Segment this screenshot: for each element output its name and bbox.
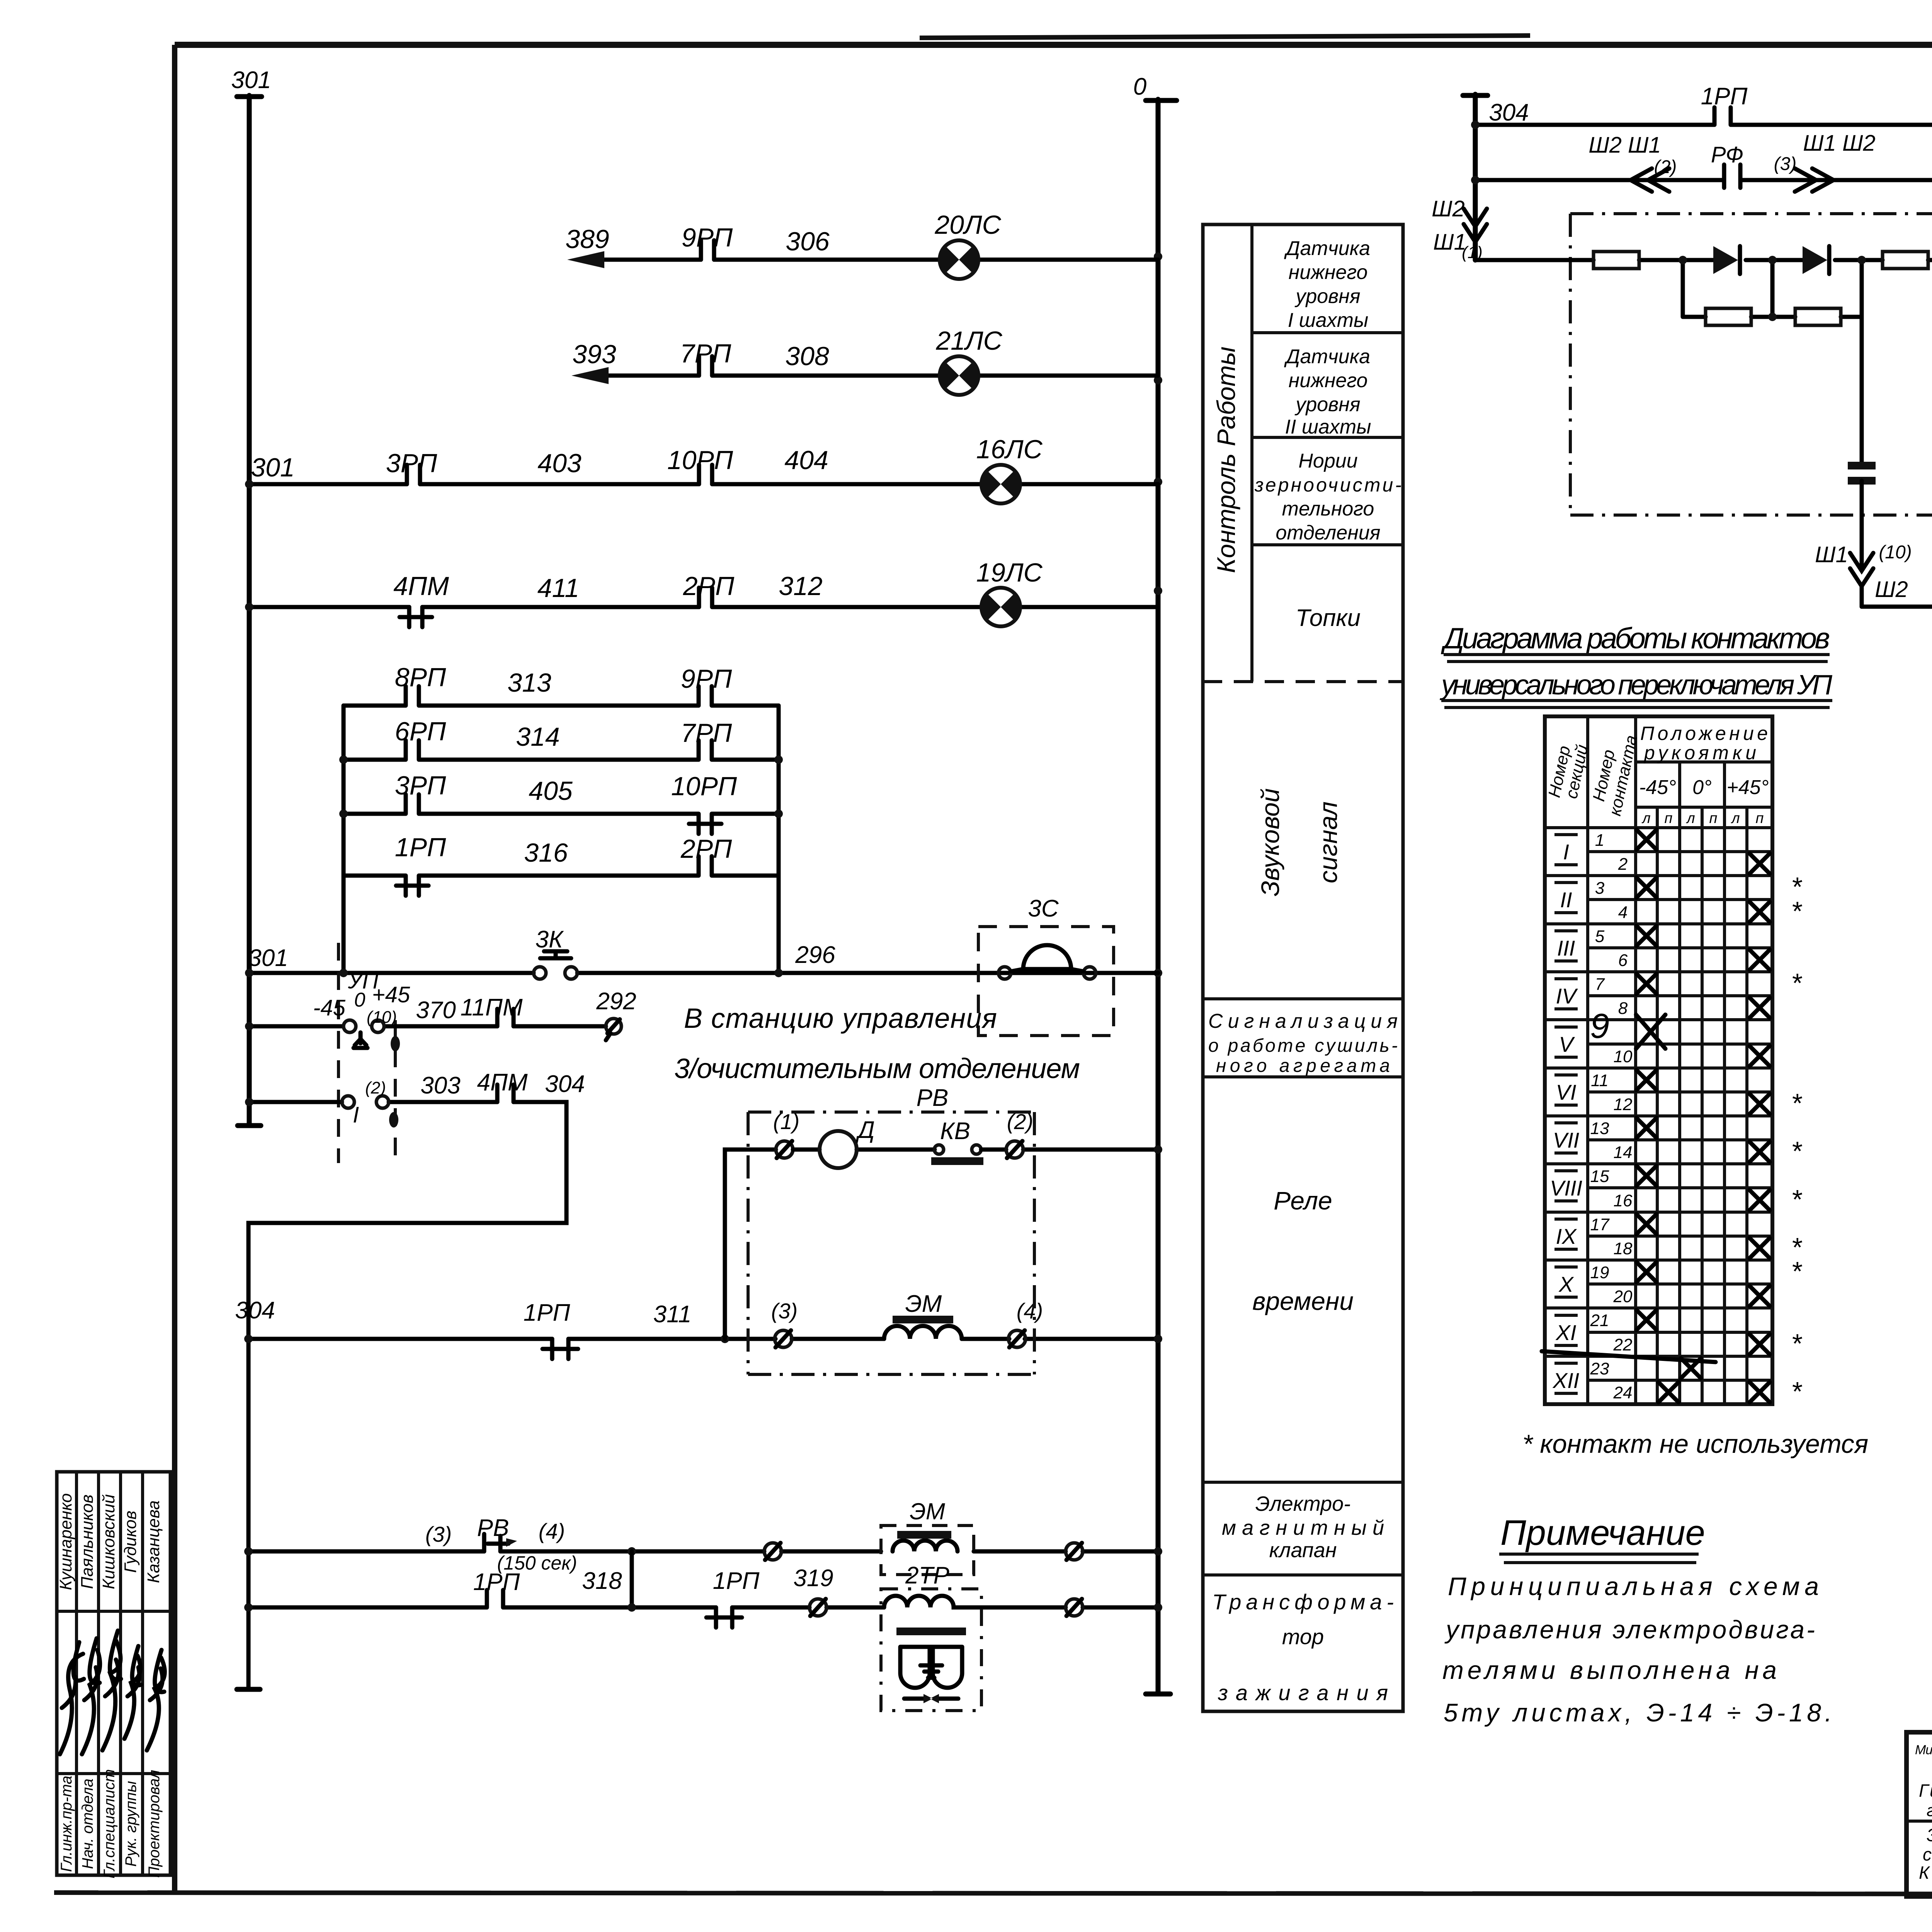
svg-text:7: 7: [1595, 975, 1605, 994]
svg-text:+45: +45: [372, 982, 410, 1007]
svg-text:15: 15: [1590, 1167, 1609, 1186]
parallel contact block: verticals: [344, 706, 779, 973]
svg-text:VII: VII: [1553, 1128, 1579, 1152]
svg-text:Рук. группы: Рук. группы: [122, 1781, 139, 1867]
svg-text:8РП: 8РП: [395, 663, 446, 692]
svg-text:1РП: 1РП: [1701, 83, 1748, 110]
svg-text:Гл.специалист: Гл.специалист: [101, 1769, 118, 1879]
svg-text:314: 314: [516, 722, 560, 752]
lamp 21ЛС: [940, 356, 978, 395]
svg-text:III: III: [1557, 936, 1575, 960]
svg-text:Топки: Топки: [1296, 605, 1361, 631]
connector Ш1Ш2 (3) right arrows: [1795, 168, 1833, 192]
svg-text:18: 18: [1614, 1239, 1633, 1258]
contact КВ: [934, 1145, 944, 1154]
diode VD2: [1803, 246, 1827, 274]
svg-text:5: 5: [1595, 927, 1605, 946]
LEFT-SCHEMATIC: [231, 67, 1177, 1711]
wire rung 301 - push button 3К - 296 to bus 0: [249, 971, 1158, 975]
svg-text:Гипросельхозптицепром: Гипросельхозптицепром: [1919, 1781, 1932, 1801]
contact 3РП / wire 405 / contact 10РП (NC): [344, 794, 779, 834]
svg-text:Министерство сельского хозяйст: Министерство сельского хозяйства СССР: [1915, 1743, 1932, 1757]
svg-text:316: 316: [524, 838, 568, 867]
svg-text:Принципиальная схема: Принципиальная схема: [1448, 1572, 1819, 1600]
contact 6РП / wire 314 / contact 7РП: [344, 740, 779, 760]
svg-text:Звуковой: Звуковой: [1256, 788, 1284, 896]
svg-text:ЭМ: ЭМ: [905, 1291, 942, 1317]
resistor R2 / resistor R6 lower branch wires: [1683, 260, 1862, 466]
wire top with contact 1РП: [1475, 107, 1932, 180]
contact 1РП (NC) / wire 316 / contact 2РП: [344, 856, 779, 896]
svg-text:Контроль Работы: Контроль Работы: [1212, 347, 1240, 573]
svg-text:1РП: 1РП: [524, 1299, 570, 1326]
svg-text:(2): (2): [1007, 1109, 1033, 1134]
resistor R6: [1795, 308, 1841, 325]
CONTACT-DIAGRAM: [1439, 622, 1868, 1459]
svg-text:370: 370: [416, 997, 456, 1024]
svg-text:(2): (2): [1654, 157, 1677, 177]
svg-text:389: 389: [565, 224, 609, 254]
svg-text:КВ: КВ: [940, 1118, 970, 1145]
svg-text:301: 301: [251, 453, 294, 482]
svg-text:312: 312: [779, 571, 822, 601]
svg-text:г. Ростов-на-Дону 1972г.: г. Ростов-на-Дону 1972г.: [1927, 1801, 1932, 1820]
svg-text:24: 24: [1613, 1383, 1633, 1402]
svg-text:1РП: 1РП: [473, 1569, 520, 1595]
svg-text:3/очистительным отделением: 3/очистительным отделением: [674, 1053, 1080, 1084]
FLAME-CIRCUIT: [1432, 82, 1932, 629]
svg-text:Ш1: Ш1: [1815, 542, 1848, 567]
svg-text:Казанцева: Казанцева: [144, 1500, 163, 1583]
svg-text:*: *: [1791, 1328, 1803, 1359]
svg-text:VIII: VIII: [1550, 1176, 1582, 1200]
svg-text:-45: -45: [313, 995, 346, 1020]
svg-text:3РП: 3РП: [386, 449, 437, 478]
svg-text:13: 13: [1590, 1119, 1609, 1138]
svg-text:IX: IX: [1556, 1224, 1578, 1248]
svg-text:19: 19: [1590, 1263, 1609, 1282]
svg-text:(3): (3): [425, 1522, 452, 1546]
node 304 feeder (left vertical): [1463, 94, 1488, 260]
svg-text:Гудиков: Гудиков: [121, 1510, 140, 1573]
svg-text:313: 313: [507, 668, 551, 697]
svg-text:318: 318: [582, 1568, 622, 1594]
svg-text:тор: тор: [1282, 1624, 1324, 1649]
svg-text:РФ: РФ: [1711, 142, 1743, 167]
svg-text:(10): (10): [367, 1008, 397, 1027]
svg-text:(10): (10): [1879, 542, 1912, 563]
svg-text:(4): (4): [539, 1519, 565, 1543]
svg-text:21: 21: [1590, 1311, 1609, 1330]
svg-text:магнитный: магнитный: [1222, 1516, 1384, 1539]
svg-text:1: 1: [1595, 831, 1604, 850]
svg-text:*: *: [1791, 1184, 1803, 1214]
svg-text:2: 2: [1618, 855, 1628, 874]
svg-text:Нач. отдела: Нач. отдела: [79, 1779, 96, 1869]
svg-text:о работе сушиль-: о работе сушиль-: [1208, 1036, 1398, 1056]
svg-text:0: 0: [1133, 73, 1146, 100]
svg-text:Электро-: Электро-: [1255, 1492, 1350, 1515]
svg-text:телями выполнена на: телями выполнена на: [1442, 1656, 1777, 1684]
svg-text:Положение: Положение: [1640, 723, 1768, 744]
svg-text:Ш2 Ш1: Ш2 Ш1: [1588, 133, 1661, 158]
svg-text:I шахты: I шахты: [1288, 309, 1369, 332]
svg-text:3: 3: [1595, 879, 1605, 898]
svg-text:10РП: 10РП: [667, 446, 733, 475]
svg-text:20ЛС: 20ЛС: [934, 210, 1001, 240]
terminal (1): [776, 1141, 793, 1158]
svg-text:зажигания: зажигания: [1218, 1680, 1388, 1705]
svg-text:п: п: [1756, 810, 1764, 827]
svg-text:л: л: [1641, 810, 1650, 827]
svg-text:РВ: РВ: [477, 1515, 509, 1541]
svg-text:Гл.инж.пр-та: Гл.инж.пр-та: [58, 1776, 75, 1872]
wire rung УП(-45/0/+45) 370 11ПМ 292: [249, 1024, 606, 1029]
svg-text:(3): (3): [771, 1299, 798, 1323]
svg-text:2РП: 2РП: [680, 834, 732, 864]
svg-text:Примечание: Примечание: [1500, 1513, 1705, 1553]
bell 3С in dashed box: [978, 927, 1114, 1036]
wire rung 1РП 318 1РП 319 2ТР: [248, 1605, 1158, 1610]
svg-text:+45°: +45°: [1726, 776, 1769, 799]
svg-text:I: I: [1563, 840, 1569, 864]
svg-text:XI: XI: [1555, 1320, 1577, 1345]
svg-text:10: 10: [1614, 1047, 1633, 1066]
svg-text:-45°: -45°: [1639, 776, 1676, 799]
svg-text:уровня: уровня: [1294, 285, 1360, 308]
connector Ш2/Ш1(1) on 304 drop: [1464, 209, 1487, 242]
svg-text:Д: Д: [855, 1117, 875, 1143]
svg-text:Нории: Нории: [1298, 450, 1357, 472]
wire 320 with connectors Ш2Ш1(2), contact РФ, (3)Ш1Ш2: [1475, 165, 1932, 188]
wire rung 393-7РП-308 to lamp 21ЛС: [604, 374, 1158, 378]
svg-text:7РП: 7РП: [680, 339, 731, 368]
diode VD1: [1713, 246, 1738, 274]
svg-text:6: 6: [1618, 951, 1628, 970]
wire rung 304 1РП 311 (3) ЭМ (4): [248, 1337, 1158, 1341]
svg-text:403: 403: [537, 449, 582, 478]
device Д (circle): [793, 1148, 935, 1152]
svg-text:21ЛС: 21ЛС: [935, 326, 1002, 355]
svg-text:12: 12: [1614, 1095, 1633, 1114]
svg-text:времени: времени: [1252, 1287, 1354, 1315]
svg-text:л: л: [1686, 810, 1695, 827]
TITLE-BLOCK: [56, 1472, 1932, 1897]
svg-text:л: л: [1731, 810, 1740, 827]
svg-text:(2): (2): [365, 1078, 386, 1097]
lamp 16ЛС: [981, 465, 1020, 503]
lamp 20ЛС: [940, 240, 978, 279]
svg-text:I: I: [353, 1102, 359, 1128]
svg-text:*: *: [1791, 1376, 1803, 1406]
svg-text:Ш2: Ш2: [1875, 577, 1908, 602]
svg-text:Реле: Реле: [1274, 1186, 1332, 1215]
svg-text:*: *: [1791, 968, 1803, 998]
coil ЭМ (2nd, dashed box): [881, 1526, 974, 1575]
svg-text:Датчика: Датчика: [1284, 345, 1370, 368]
resistor R3: [1883, 252, 1928, 269]
svg-text:14: 14: [1614, 1143, 1633, 1162]
svg-text:2ТР: 2ТР: [905, 1562, 949, 1589]
svg-text:4ПМ: 4ПМ: [393, 571, 449, 601]
svg-text:X: X: [1558, 1272, 1574, 1296]
svg-text:0: 0: [354, 989, 366, 1011]
NOTES: [1442, 1513, 1832, 1727]
bus 0 (right vertical): [1146, 99, 1177, 1694]
svg-text:*: *: [1791, 1136, 1803, 1166]
svg-text:Диаграмма работы контактов: Диаграмма работы контактов: [1440, 622, 1830, 655]
svg-text:404: 404: [784, 446, 828, 475]
svg-text:(3): (3): [1774, 154, 1797, 174]
svg-text:Зерноочистительно-: Зерноочистительно-: [1927, 1825, 1932, 1845]
terminal (2): [1006, 1141, 1023, 1158]
lamp 19ЛС: [981, 588, 1020, 626]
svg-text:нижнего: нижнего: [1289, 261, 1368, 284]
svg-text:306: 306: [786, 227, 830, 256]
svg-text:Паяльников: Паяльников: [78, 1495, 97, 1589]
svg-text:сигнал: сигнал: [1314, 801, 1342, 883]
capacitor C: [1848, 466, 1876, 481]
signatures squiggles: [60, 1642, 84, 1754]
wire rung I(2) 303 4ПМ 304: [248, 1102, 566, 1689]
wire rung 389-9РП-306 to lamp 20ЛС: [600, 258, 1158, 262]
svg-text:301: 301: [231, 67, 271, 94]
ignition transformer 2ТР: [881, 1589, 981, 1711]
svg-text:п: п: [1709, 810, 1718, 827]
svg-text:нижнего: нижнего: [1289, 369, 1368, 392]
РВ dash-dot box: [748, 1112, 1034, 1374]
svg-text:11: 11: [1591, 1071, 1609, 1090]
svg-text:393: 393: [572, 340, 616, 369]
svg-text:20: 20: [1613, 1287, 1633, 1306]
svg-text:п: п: [1665, 810, 1673, 827]
svg-text:311: 311: [653, 1301, 692, 1328]
svg-text:*: *: [1791, 1088, 1803, 1118]
svg-text:303: 303: [420, 1072, 460, 1099]
svg-text:РВ: РВ: [917, 1085, 949, 1111]
svg-text:10РП: 10РП: [671, 772, 737, 801]
svg-text:ЭМ: ЭМ: [910, 1498, 945, 1524]
svg-text:3РП: 3РП: [395, 771, 446, 800]
svg-text:Ш2: Ш2: [1432, 196, 1465, 221]
svg-text:19ЛС: 19ЛС: [976, 558, 1043, 587]
resistor R1: [1594, 252, 1639, 269]
svg-text:23: 23: [1590, 1359, 1609, 1378]
svg-text:292: 292: [596, 988, 636, 1015]
universal switch УП (dashed stems): [338, 943, 395, 1163]
main line with resistors and diodes: [1475, 258, 1932, 262]
contact 8РП / wire 313 / contact 9РП: [344, 686, 779, 706]
svg-text:2РП: 2РП: [683, 571, 735, 601]
svg-text:XII: XII: [1552, 1368, 1579, 1393]
svg-text:16: 16: [1614, 1191, 1633, 1210]
svg-text:304: 304: [235, 1297, 275, 1324]
svg-text:411: 411: [537, 573, 579, 603]
svg-text:1РП: 1РП: [713, 1568, 760, 1594]
svg-text:сушильный комплекс: сушильный комплекс: [1923, 1844, 1932, 1864]
svg-text:Кушнаренко: Кушнаренко: [56, 1493, 75, 1590]
svg-text:7РП: 7РП: [681, 718, 732, 748]
svg-text:IV: IV: [1556, 984, 1578, 1008]
svg-text:319: 319: [793, 1565, 833, 1592]
svg-text:* контакт не используется: * контакт не используется: [1522, 1429, 1868, 1459]
svg-text:тельного: тельного: [1282, 498, 1374, 520]
device dash-dot boundary: [1570, 214, 1932, 515]
УП contact table grid: [1545, 716, 1772, 1404]
svg-text:304: 304: [1489, 99, 1529, 126]
signature table (rotated, left margin): [56, 1472, 170, 1878]
svg-text:1РП: 1РП: [395, 833, 446, 862]
svg-text:405: 405: [529, 776, 573, 806]
svg-text:Кишковский: Кишковский: [99, 1494, 118, 1589]
riser wire to Д/КВ row: [725, 1150, 776, 1339]
svg-text:4ПМ: 4ПМ: [477, 1069, 527, 1096]
svg-text:(1): (1): [773, 1109, 799, 1134]
rail 304 (lower-left vertical): [237, 1687, 260, 1692]
svg-text:16ЛС: 16ЛС: [976, 435, 1043, 464]
svg-text:II шахты: II шахты: [1285, 416, 1371, 438]
svg-text:308: 308: [785, 342, 829, 371]
bus 301 (left vertical): [237, 95, 262, 1126]
svg-text:9РП: 9РП: [682, 223, 733, 252]
svg-text:6РП: 6РП: [395, 717, 446, 746]
svg-text:универсального переключателя У: универсального переключателя УП: [1439, 670, 1833, 701]
connector Ш1(10)/Ш2: [1850, 553, 1873, 586]
svg-text:отделения: отделения: [1276, 522, 1380, 544]
svg-text:V: V: [1559, 1032, 1575, 1056]
bottom return wire: [1862, 605, 1932, 609]
svg-text:8: 8: [1618, 999, 1628, 1018]
svg-text:Датчика: Датчика: [1284, 237, 1370, 260]
svg-text:уровня: уровня: [1294, 393, 1360, 416]
svg-text:3К: 3К: [535, 926, 564, 953]
svg-text:Проектировал: Проектировал: [146, 1770, 163, 1878]
svg-text:9: 9: [1590, 1007, 1609, 1046]
svg-text:0°: 0°: [1692, 776, 1712, 799]
border frame: [175, 42, 1932, 48]
svg-text:*: *: [1791, 1256, 1803, 1286]
svg-text:VI: VI: [1556, 1080, 1577, 1104]
svg-text:304: 304: [545, 1071, 585, 1097]
svg-text:22: 22: [1613, 1335, 1633, 1354]
svg-text:рукоятки: рукоятки: [1643, 742, 1756, 764]
connector Ш2Ш1 (2) left arrows: [1631, 168, 1669, 192]
svg-text:клапан: клапан: [1269, 1539, 1337, 1562]
svg-text:Ш1: Ш1: [1433, 230, 1466, 255]
wire rung (3) РВ (4) 150sec / ЭМ: [248, 1549, 1158, 1554]
svg-text:9РП: 9РП: [681, 664, 732, 694]
svg-text:11ПМ: 11ПМ: [461, 994, 523, 1021]
svg-text:296: 296: [795, 942, 835, 968]
svg-text:Ш1 Ш2: Ш1 Ш2: [1803, 131, 1875, 156]
svg-text:(4): (4): [1017, 1299, 1043, 1323]
svg-text:II: II: [1560, 888, 1572, 912]
svg-text:4: 4: [1618, 903, 1628, 922]
coil ЭМ (electromagnet): [884, 1326, 962, 1339]
wire rung 301-3РП-403-10РП-404 to lamp 16ЛС: [249, 482, 1158, 486]
MIDDLE-TABLE: [1203, 224, 1403, 1711]
wire rung 4ПМ-411-2РП-312 to lamp 19ЛС: [249, 605, 1158, 609]
svg-text:3С: 3С: [1028, 895, 1059, 922]
svg-text:301: 301: [248, 945, 288, 971]
svg-text:17: 17: [1590, 1215, 1610, 1234]
svg-text:*: *: [1791, 896, 1803, 926]
